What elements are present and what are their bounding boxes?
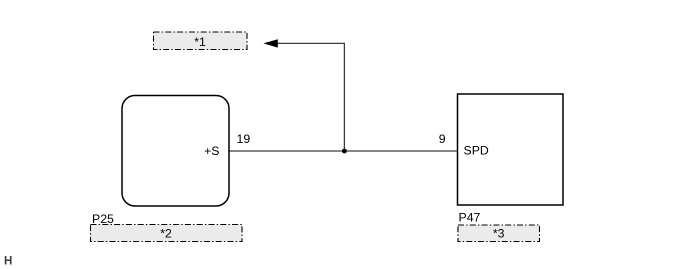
ECU block — [458, 94, 564, 205]
arrow to *1 — [263, 39, 345, 47]
label box *1 — [154, 32, 248, 50]
svg-text:SPD: SPD — [464, 144, 489, 158]
junction node — [342, 149, 347, 154]
svg-text:19: 19 — [237, 132, 251, 146]
svg-text:*3: *3 — [493, 227, 505, 241]
svg-text:*2: *2 — [160, 227, 172, 241]
svg-text:+S: +S — [204, 144, 219, 158]
wire horizontal +S to SPD — [229, 150, 458, 152]
svg-text:H: H — [4, 256, 12, 268]
svg-text:*1: *1 — [194, 35, 206, 49]
svg-text:P47: P47 — [459, 211, 481, 225]
svg-text:P25: P25 — [92, 212, 114, 226]
wire vertical from junction to arrow — [343, 43, 345, 151]
combination meter block (rounded) — [122, 96, 229, 207]
svg-text:9: 9 — [439, 132, 446, 146]
label box *2 — [91, 225, 243, 242]
label box *3 — [458, 225, 540, 242]
